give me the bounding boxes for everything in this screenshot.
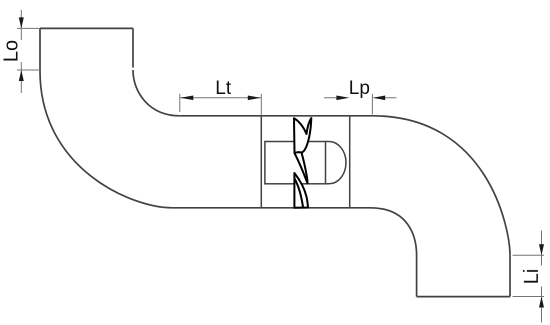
dim Lp extension line <box>371 94 373 115</box>
propeller blade middle <box>295 152 308 183</box>
duct inlet top edge <box>40 27 133 29</box>
dim Lt extension lines <box>180 94 261 116</box>
svg-text:Li: Li <box>521 269 543 285</box>
motor body rectangle <box>265 142 326 184</box>
duct inlet right edge <box>132 28 134 67</box>
svg-text:Lt: Lt <box>215 78 232 99</box>
dim Lo extension ticks <box>17 28 40 70</box>
duct outlet inner edge <box>416 256 418 297</box>
left elbow outer arc <box>40 71 172 208</box>
duct top wall <box>180 115 373 117</box>
duct outlet bottom edge <box>417 296 510 298</box>
duct bottom wall <box>172 207 370 209</box>
duct inlet left edge <box>39 28 41 71</box>
dim Li extension ticks <box>513 255 545 296</box>
svg-text:Lp: Lp <box>349 78 370 99</box>
arrow Li bottom <box>539 297 544 308</box>
propeller blade bottom <box>294 173 308 208</box>
dim Lo line <box>20 10 22 93</box>
propeller blade top <box>294 118 311 153</box>
fan right flange <box>349 116 351 208</box>
left elbow inner arc <box>133 70 180 116</box>
arrow Li top <box>539 244 544 255</box>
dim Lp line <box>324 97 397 99</box>
duct outlet right edge <box>509 255 511 296</box>
arrow Lo bottom <box>19 70 24 81</box>
arrow Lo top <box>19 17 24 28</box>
arrow Lt right <box>248 96 261 101</box>
dim Li line <box>541 231 543 323</box>
dim Lt line <box>180 97 260 99</box>
right elbow outer arc <box>372 116 510 255</box>
svg-text:Lo: Lo <box>0 40 22 62</box>
right elbow inner arc <box>370 208 417 256</box>
arrow Lt left <box>180 96 193 101</box>
arrow Lp right <box>372 96 385 101</box>
arrow Lp left <box>336 96 349 101</box>
fan left flange <box>260 116 262 208</box>
motor end cap dome <box>326 142 346 184</box>
